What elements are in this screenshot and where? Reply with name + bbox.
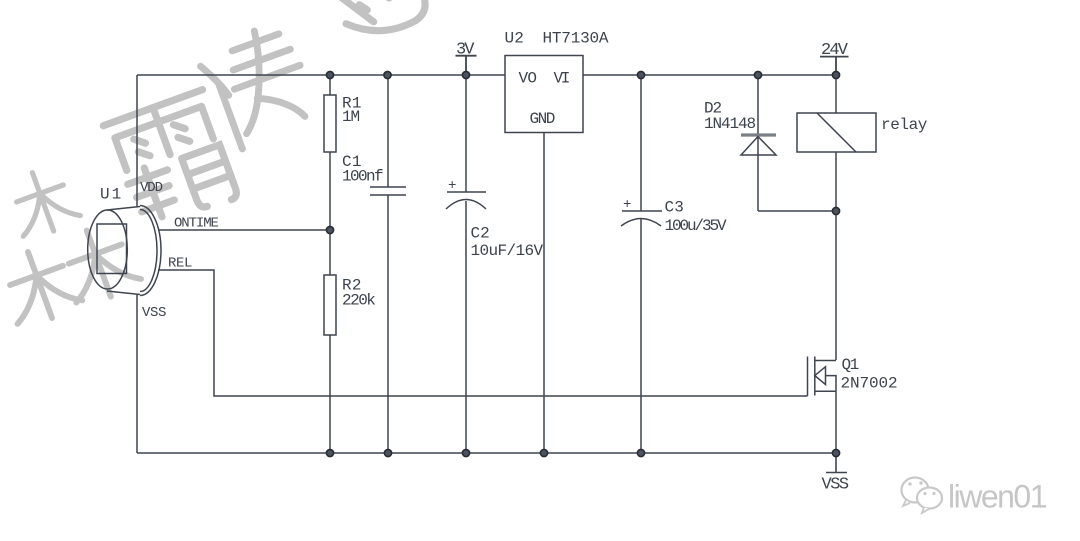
wire left VSS segment <box>136 294 138 453</box>
svg-text:10uF/16V: 10uF/16V <box>471 242 544 260</box>
node C1 bottom <box>384 449 391 456</box>
wire relay to Q1 drain <box>835 211 837 360</box>
wire relay top <box>835 75 837 113</box>
wire R1 top <box>329 75 331 95</box>
wire ONTIME <box>158 229 330 231</box>
wire REL to gate <box>158 270 808 396</box>
wire C3 bottom <box>640 219 642 453</box>
wire D2 bottom <box>758 210 836 212</box>
wire relay bottom <box>835 152 837 211</box>
svg-text:24V: 24V <box>821 41 849 60</box>
svg-text:ONTIME: ONTIME <box>174 216 219 232</box>
svg-text:relay: relay <box>881 116 928 134</box>
regulator U2 box <box>505 56 583 133</box>
wire left VDD segment <box>136 75 138 207</box>
wire C2 top <box>465 75 467 192</box>
wire C1 top <box>387 75 389 187</box>
node R1 top <box>326 71 333 78</box>
wire top rail left segment <box>137 74 505 76</box>
wire C2 bottom <box>465 201 467 453</box>
svg-text:1N4148: 1N4148 <box>704 115 756 133</box>
svg-text:VO: VO <box>519 69 537 87</box>
node GND bottom <box>540 449 547 456</box>
svg-text:C3: C3 <box>665 199 685 217</box>
svg-text:C2: C2 <box>471 225 490 243</box>
svg-text:U1: U1 <box>100 186 123 204</box>
svg-text:HT7130A: HT7130A <box>543 30 609 48</box>
node C3 top <box>637 71 644 78</box>
node 24V <box>832 71 839 78</box>
svg-text:+: + <box>623 197 631 213</box>
wire D2 top <box>757 75 759 211</box>
node C2 bottom <box>462 449 469 456</box>
svg-text:VI: VI <box>554 69 570 87</box>
node R2 bottom <box>326 449 333 456</box>
svg-text:1M: 1M <box>342 108 360 126</box>
diode D2 <box>741 133 776 136</box>
svg-text:100nf: 100nf <box>342 168 383 186</box>
relay coil box <box>797 113 876 152</box>
wechat logo <box>902 478 943 514</box>
wire R2 bottom <box>329 335 331 453</box>
wire top rail right segment <box>583 74 836 76</box>
svg-text:U2: U2 <box>505 30 525 48</box>
svg-text:2N7002: 2N7002 <box>841 375 898 393</box>
node C3 bottom <box>637 449 644 456</box>
resistor R1 <box>324 95 336 152</box>
sensor U1 <box>88 206 161 296</box>
wire R1 bottom to R2 top <box>329 152 331 275</box>
ground VSS stub <box>826 453 847 473</box>
capacitor C3 <box>621 211 662 226</box>
svg-text:Q1: Q1 <box>842 356 859 374</box>
svg-text:VSS: VSS <box>142 305 166 321</box>
node D2 top <box>754 71 761 78</box>
svg-text:VSS: VSS <box>822 476 849 495</box>
transistor Q1 <box>807 357 809 397</box>
capacitor C2 <box>446 192 486 209</box>
power 24V stub <box>820 57 849 75</box>
watermark <box>0 0 430 330</box>
node Q1 source bottom <box>832 449 839 456</box>
capacitor C1 <box>370 187 406 195</box>
svg-text:REL: REL <box>168 256 192 272</box>
wire C1 bottom <box>387 195 389 453</box>
svg-text:GND: GND <box>530 110 555 128</box>
wire C3 top <box>640 75 642 211</box>
node ONTIME junction <box>326 226 333 233</box>
wire U2 GND pin <box>543 133 545 454</box>
svg-text:3V: 3V <box>456 41 475 60</box>
svg-text:liwen01: liwen01 <box>948 479 1047 515</box>
power 3V stub <box>456 56 477 75</box>
svg-text:+: + <box>448 178 456 194</box>
svg-text:VDD: VDD <box>140 180 163 196</box>
svg-text:220k: 220k <box>342 292 375 310</box>
wire bottom rail <box>137 452 836 454</box>
svg-text:100u/35V: 100u/35V <box>665 217 728 235</box>
node D2 relay junction <box>832 207 839 214</box>
resistor R2 <box>324 275 336 335</box>
node C1 top <box>384 71 391 78</box>
wire Q1 source <box>835 391 837 453</box>
node 3V <box>462 71 469 78</box>
